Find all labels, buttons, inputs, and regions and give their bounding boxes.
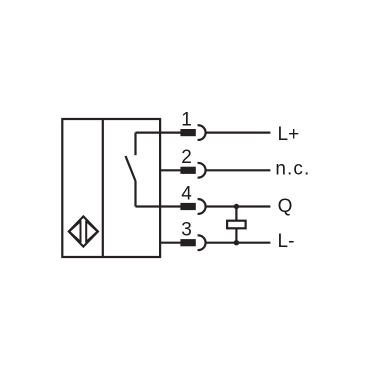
connector socket arc pin4 bbox=[198, 199, 206, 214]
svg-text:L-: L- bbox=[278, 231, 295, 252]
connector socket arc pin1 bbox=[198, 125, 206, 140]
diamond right triangle bbox=[86, 221, 97, 242]
diamond left triangle bbox=[69, 221, 80, 242]
pin contact 2 bbox=[180, 167, 195, 174]
wire pin1 left bbox=[136, 132, 181, 134]
wire pin2 right to n.c. bbox=[206, 169, 271, 171]
wire pin2 left bbox=[159, 169, 181, 171]
svg-text:1: 1 bbox=[181, 109, 192, 130]
load branch vertical wire bbox=[235, 207, 237, 243]
connector socket arc pin3 bbox=[198, 235, 206, 250]
pin contact 3 bbox=[180, 239, 195, 246]
wire pin4 left bbox=[136, 205, 181, 207]
svg-text:2: 2 bbox=[181, 147, 192, 168]
junction dot top bbox=[234, 204, 239, 209]
svg-text:4: 4 bbox=[181, 183, 192, 204]
wire pin4 right to Q bbox=[206, 205, 271, 207]
sensor body outline bbox=[62, 119, 160, 257]
switch top terminal wire bbox=[134, 133, 136, 156]
switch bottom terminal wire bbox=[134, 181, 136, 207]
wire pin3 left bbox=[159, 242, 181, 244]
sensor body divider bbox=[102, 119, 104, 257]
load resistor bbox=[227, 221, 246, 229]
wire pin3 right to L- bbox=[206, 242, 271, 244]
svg-text:n.c.: n.c. bbox=[275, 158, 310, 179]
junction dot bottom bbox=[234, 240, 239, 245]
switch blade bbox=[126, 156, 136, 181]
svg-text:L+: L+ bbox=[278, 124, 300, 145]
svg-text:3: 3 bbox=[181, 220, 192, 241]
connector socket arc pin2 bbox=[198, 163, 206, 178]
pin contact 1 bbox=[180, 129, 195, 136]
pin contact 4 bbox=[180, 203, 195, 210]
svg-text:Q: Q bbox=[278, 196, 293, 217]
wire pin1 right to L+ bbox=[206, 132, 271, 134]
proximity sensor diamond bbox=[69, 216, 98, 246]
